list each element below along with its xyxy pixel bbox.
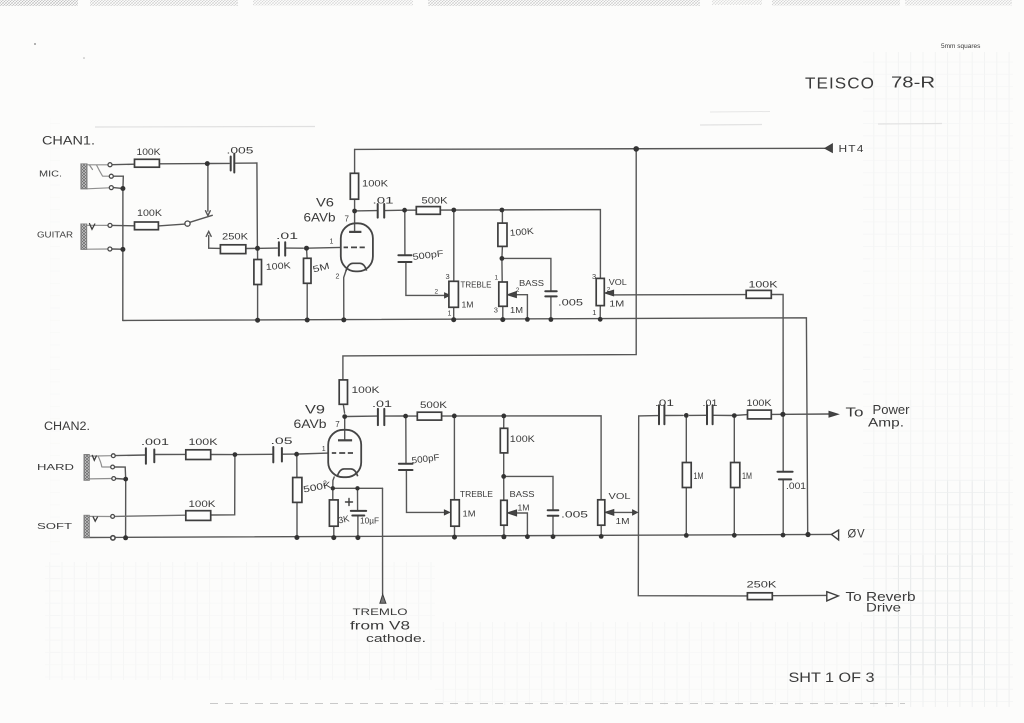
- svg-text:from V8: from V8: [350, 619, 410, 633]
- svg-text:100K: 100K: [362, 179, 388, 189]
- svg-text:CHAN2.: CHAN2.: [44, 421, 90, 433]
- svg-text:1M: 1M: [609, 299, 624, 309]
- svg-text:100K: 100K: [137, 147, 161, 157]
- svg-text:7: 7: [335, 420, 340, 429]
- svg-text:.01: .01: [373, 196, 394, 206]
- svg-text:78-R: 78-R: [891, 75, 935, 92]
- svg-text:.01: .01: [703, 398, 718, 408]
- svg-text:Drive: Drive: [866, 601, 901, 615]
- svg-text:3: 3: [446, 272, 450, 281]
- svg-text:100K: 100K: [510, 434, 535, 444]
- svg-text:100K: 100K: [189, 499, 216, 509]
- svg-text:6AVb: 6AVb: [294, 419, 327, 431]
- svg-text:.005: .005: [558, 298, 583, 309]
- svg-text:100K: 100K: [265, 260, 291, 272]
- svg-text:2: 2: [323, 481, 327, 488]
- svg-text:250K: 250K: [222, 232, 248, 242]
- svg-text:1M: 1M: [510, 305, 523, 315]
- svg-text:500K: 500K: [420, 400, 447, 410]
- svg-text:TREMLO: TREMLO: [353, 607, 408, 618]
- svg-text:3: 3: [592, 272, 596, 281]
- svg-text:SHT 1 OF 3: SHT 1 OF 3: [789, 670, 875, 685]
- svg-text:MIC.: MIC.: [39, 169, 62, 179]
- svg-text:TREBLE: TREBLE: [461, 280, 492, 289]
- svg-text:1: 1: [592, 308, 596, 317]
- svg-text:1M: 1M: [742, 471, 752, 481]
- svg-text:.001: .001: [786, 481, 806, 492]
- svg-text:100K: 100K: [352, 385, 380, 395]
- svg-text:6AVb: 6AVb: [304, 213, 336, 225]
- svg-text:100K: 100K: [509, 226, 534, 238]
- svg-text:2: 2: [516, 287, 520, 294]
- svg-text:100K: 100K: [137, 208, 162, 218]
- svg-text:.005: .005: [561, 510, 588, 521]
- svg-text:1: 1: [495, 275, 499, 282]
- svg-text:500K: 500K: [422, 196, 448, 206]
- svg-text:10µF: 10µF: [360, 516, 379, 526]
- svg-text:V9: V9: [305, 405, 325, 417]
- svg-text:BASS: BASS: [519, 279, 544, 288]
- svg-text:3: 3: [494, 306, 498, 315]
- svg-text:100K: 100K: [749, 280, 778, 290]
- svg-text:250K: 250K: [747, 580, 778, 591]
- svg-text:V6: V6: [316, 198, 334, 210]
- svg-text:VOL: VOL: [609, 277, 627, 287]
- svg-text:2: 2: [336, 274, 340, 281]
- svg-text:1M: 1M: [518, 504, 530, 513]
- svg-text:cathode.: cathode.: [366, 633, 426, 645]
- svg-text:1: 1: [448, 311, 452, 318]
- svg-text:.01: .01: [276, 231, 298, 241]
- svg-text:1M: 1M: [694, 471, 704, 481]
- svg-text:2: 2: [607, 287, 611, 294]
- svg-text:Amp.: Amp.: [868, 416, 904, 430]
- svg-text:TREBLE: TREBLE: [460, 490, 493, 499]
- svg-text:1: 1: [322, 446, 326, 453]
- svg-text:SOFT: SOFT: [37, 521, 72, 531]
- svg-text:1M: 1M: [463, 509, 476, 519]
- svg-text:2: 2: [435, 289, 439, 296]
- svg-text:HARD: HARD: [37, 462, 74, 472]
- svg-text:.01: .01: [372, 399, 392, 409]
- svg-text:.01: .01: [655, 398, 674, 408]
- svg-text:CHAN1.: CHAN1.: [42, 136, 95, 148]
- svg-text:1: 1: [330, 239, 334, 246]
- svg-text:.05: .05: [271, 436, 293, 446]
- svg-text:1M: 1M: [462, 300, 474, 310]
- svg-text:7: 7: [345, 215, 350, 224]
- svg-text:.005: .005: [227, 146, 254, 156]
- svg-text:VOL: VOL: [609, 491, 631, 501]
- svg-text:BASS: BASS: [510, 490, 535, 499]
- svg-text:TEISCO: TEISCO: [805, 76, 875, 93]
- svg-text:1M: 1M: [616, 516, 630, 526]
- svg-text:To: To: [846, 406, 864, 420]
- svg-text:100K: 100K: [747, 398, 772, 408]
- svg-text:5mm squares: 5mm squares: [941, 43, 981, 50]
- svg-text:.001: .001: [141, 437, 169, 447]
- svg-text:ØV: ØV: [848, 527, 866, 541]
- svg-text:100K: 100K: [189, 437, 218, 447]
- svg-text:GUITAR: GUITAR: [37, 231, 73, 240]
- svg-text:HT4: HT4: [839, 143, 865, 155]
